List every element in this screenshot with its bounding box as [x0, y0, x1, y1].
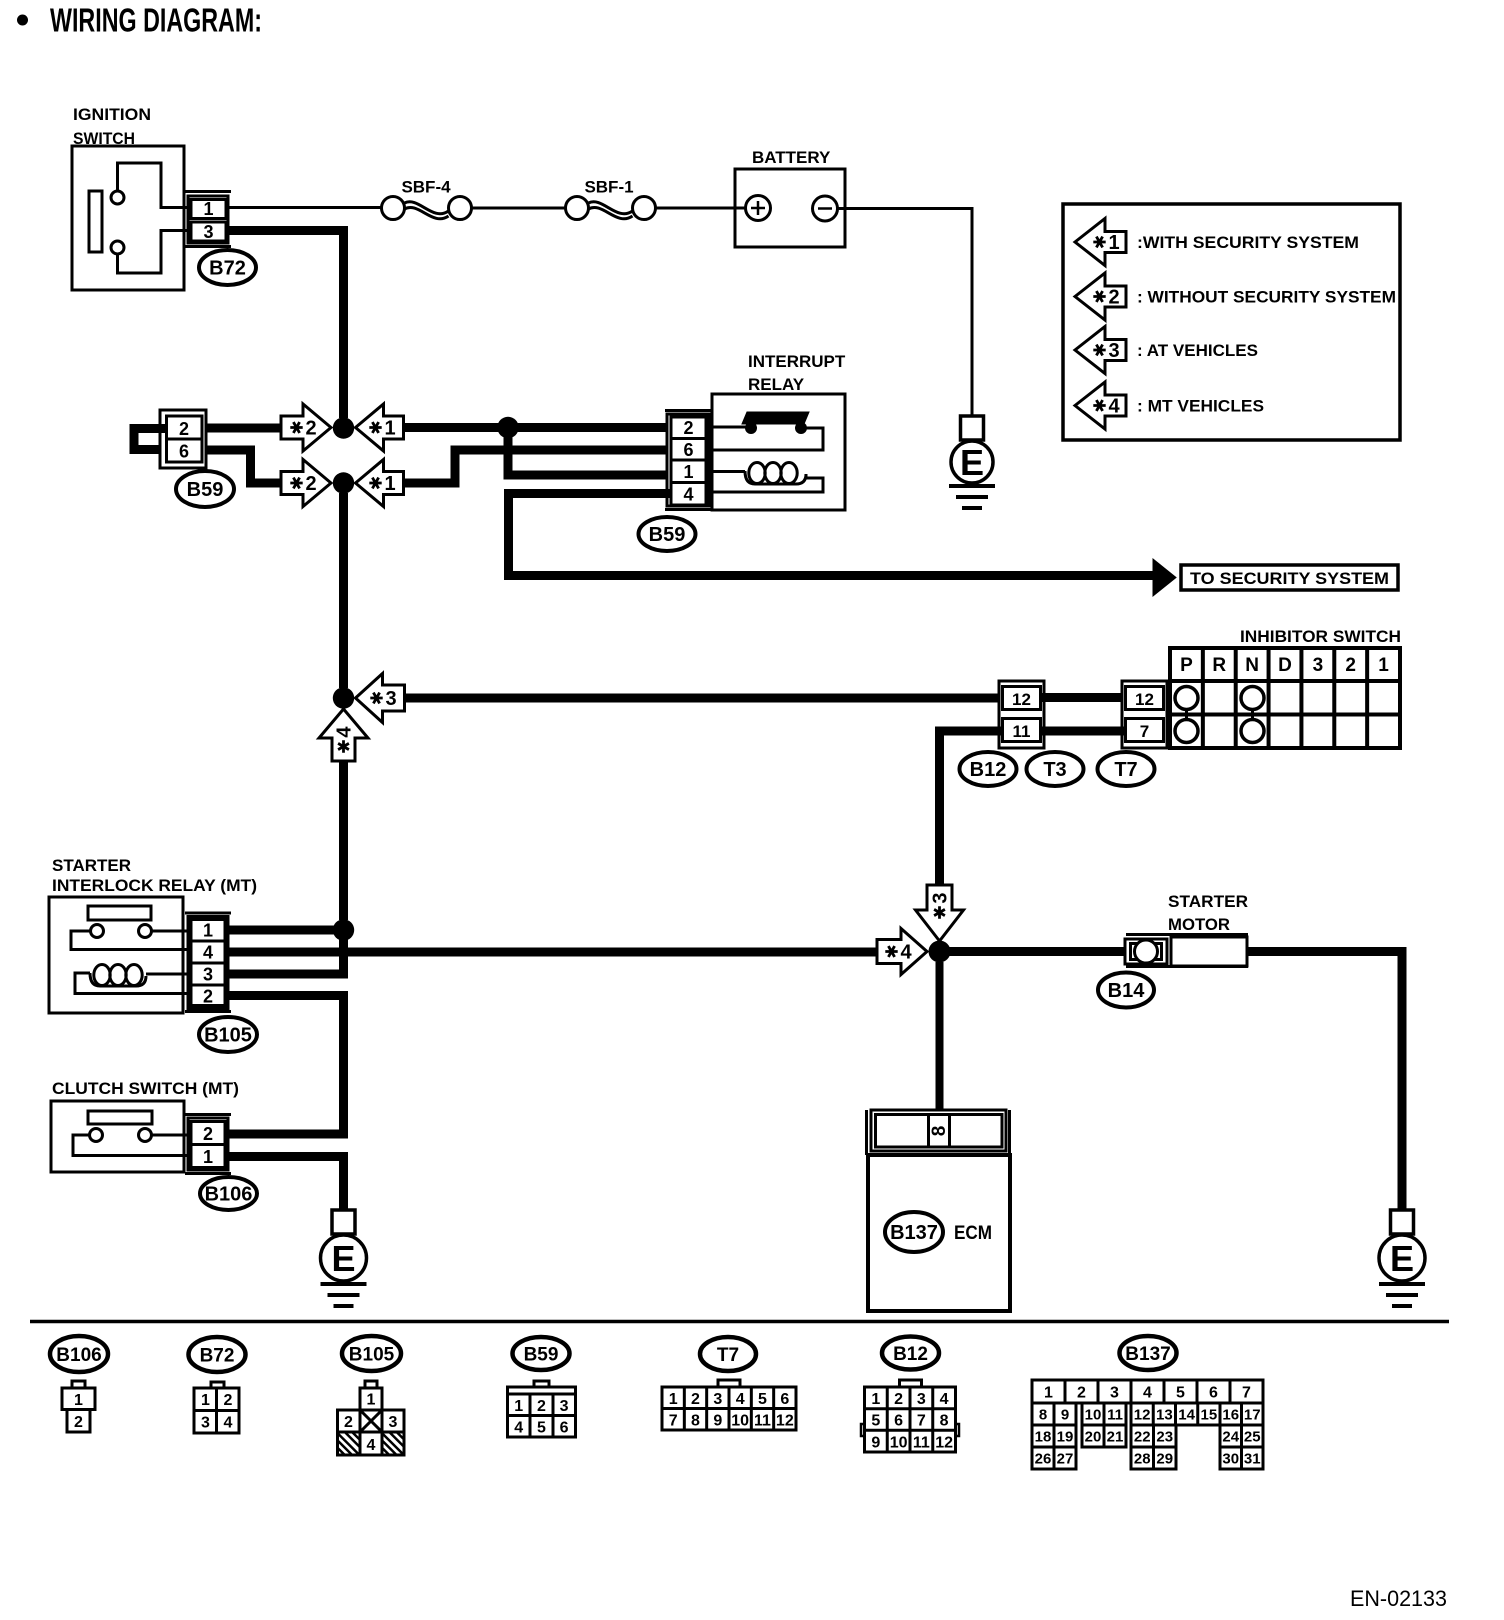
- wire arrow *1 row2 to interrupt relay pin 6: [403, 450, 670, 483]
- junction node A: [333, 417, 354, 438]
- chart connector T7 pins: [718, 1380, 740, 1387]
- svg-text:15: 15: [1201, 1407, 1218, 1424]
- connector B72 ellipse label: [199, 250, 256, 285]
- svg-text:3: 3: [917, 1391, 926, 1408]
- svg-text:T7: T7: [717, 1345, 739, 1366]
- clutch switch wire right contact to pin 2: [152, 1134, 189, 1137]
- wire starter motor to ground: [1247, 952, 1402, 1212]
- connector B12 pin 12: [1003, 687, 1041, 710]
- connector B59 left ellipse label: [176, 471, 234, 507]
- connector B59 left pin 2: [167, 416, 203, 439]
- svg-text:SBF-4: SBF-4: [401, 178, 451, 197]
- svg-text:26: 26: [1035, 1451, 1052, 1468]
- svg-text:4: 4: [900, 942, 912, 964]
- battery positive terminal: [746, 196, 771, 221]
- svg-text:: AT VEHICLES: : AT VEHICLES: [1137, 341, 1258, 360]
- svg-text:4: 4: [367, 1437, 376, 1454]
- connector B106 ellipse label: [200, 1177, 257, 1210]
- svg-text:B14: B14: [1108, 980, 1146, 1002]
- chart connector B137 row 1: [1032, 1380, 1263, 1403]
- svg-text:3: 3: [203, 965, 213, 985]
- wire arrow *1 to interrupt relay pin 2: [403, 423, 670, 432]
- svg-text:31: 31: [1244, 1451, 1261, 1468]
- arrow *3 at node C: [356, 674, 405, 723]
- svg-text:5: 5: [1176, 1385, 1185, 1402]
- svg-text:21: 21: [1107, 1429, 1124, 1446]
- ground E battery: [961, 416, 984, 440]
- svg-text:B59: B59: [649, 524, 686, 546]
- wire node F to ECM pin 8: [936, 962, 944, 1110]
- svg-text:B106: B106: [56, 1345, 101, 1366]
- svg-text:7: 7: [669, 1413, 678, 1430]
- starter interlock relay wire right contact to pin 1: [152, 930, 189, 933]
- svg-text:1: 1: [1108, 232, 1119, 254]
- svg-text:10: 10: [890, 1434, 908, 1451]
- wire below arrow *4 node C: [339, 760, 348, 920]
- svg-text:B12: B12: [893, 1344, 928, 1365]
- svg-text:B137: B137: [890, 1222, 938, 1244]
- svg-text:3: 3: [203, 222, 213, 242]
- svg-text:B72: B72: [209, 258, 246, 280]
- svg-text:4: 4: [203, 943, 213, 963]
- arrow *3 to node F: [916, 885, 964, 941]
- wire clutch pin 1 to ground: [227, 1157, 344, 1212]
- svg-text:24: 24: [1222, 1429, 1239, 1446]
- legend arrow *3: [1075, 327, 1126, 374]
- wire relay pin 1 to node E: [227, 926, 344, 935]
- svg-text:E: E: [960, 442, 984, 483]
- svg-text:T3: T3: [1043, 759, 1066, 781]
- connector B59 left pin 6: [167, 439, 203, 462]
- svg-text:9: 9: [871, 1434, 880, 1451]
- connector B106 pin 1: [191, 1145, 225, 1168]
- svg-text:8: 8: [691, 1413, 700, 1430]
- svg-text:RELAY: RELAY: [748, 375, 805, 394]
- svg-text:2: 2: [894, 1391, 903, 1408]
- starter interlock relay contact bar: [88, 906, 151, 920]
- svg-text:2: 2: [1108, 287, 1119, 309]
- ignition switch key bar: [89, 191, 102, 252]
- svg-text:27: 27: [1057, 1451, 1074, 1468]
- svg-text:STARTER: STARTER: [1168, 892, 1248, 911]
- ECM ellipse label B137: [885, 1212, 943, 1252]
- svg-text:3: 3: [201, 1415, 210, 1432]
- svg-text:D: D: [1278, 655, 1292, 676]
- connector B59 left shell: [160, 410, 206, 468]
- wire relay pin 2 down to clutch switch pin 2: [227, 996, 344, 1135]
- svg-text:3: 3: [1108, 340, 1119, 362]
- junction node E: [333, 919, 354, 940]
- svg-text:TO SECURITY SYSTEM: TO SECURITY SYSTEM: [1190, 569, 1389, 588]
- svg-text:11: 11: [1013, 722, 1031, 741]
- svg-text:2: 2: [537, 1398, 546, 1415]
- wire T7 pin 11-7 link: [1042, 727, 1124, 736]
- svg-text:3: 3: [713, 1391, 722, 1408]
- svg-text:2: 2: [683, 418, 693, 438]
- connector B14 ellipse label: [1098, 973, 1154, 1008]
- svg-text:B59: B59: [524, 1345, 559, 1366]
- wire B12 pin 12 to T7 pin 12: [1042, 693, 1124, 702]
- chart connector B72 ellipse: [189, 1337, 246, 1372]
- inhibitor switch P contacts: [1175, 687, 1198, 710]
- svg-text:P: P: [1180, 655, 1193, 676]
- starter interlock relay K2 box: [49, 897, 183, 1013]
- svg-text:4: 4: [334, 726, 356, 738]
- separator rule: [30, 1320, 1449, 1324]
- interrupt relay wire coil to pin 4: [709, 474, 823, 492]
- svg-text:IGNITION: IGNITION: [73, 105, 151, 124]
- clutch switch SW2 box: [51, 1101, 184, 1172]
- svg-text:10: 10: [731, 1413, 749, 1430]
- chart connector B12 ellipse: [882, 1337, 939, 1370]
- to security system box: [1181, 565, 1398, 590]
- svg-text:STARTER: STARTER: [52, 856, 131, 875]
- connector B105 pins 1 4 3 2: [191, 920, 225, 1006]
- chart connector B106 ellipse: [50, 1336, 108, 1372]
- svg-text:B72: B72: [200, 1346, 235, 1367]
- svg-text:3: 3: [1110, 1385, 1119, 1402]
- chart connector B137 row 4: [1032, 1447, 1076, 1469]
- starter interlock relay wire left contact to pin 4: [71, 931, 188, 950]
- wire node A to node B gap none; vertical below node B: [339, 493, 348, 688]
- svg-text:1: 1: [203, 921, 213, 941]
- svg-text:12: 12: [1135, 690, 1154, 709]
- svg-text:B105: B105: [349, 1345, 395, 1366]
- svg-text:4: 4: [1108, 396, 1120, 418]
- svg-text:INHIBITOR SWITCH: INHIBITOR SWITCH: [1240, 627, 1401, 646]
- svg-text:13: 13: [1156, 1407, 1173, 1424]
- arrow *1 row2: [356, 460, 404, 507]
- svg-text:9: 9: [713, 1413, 722, 1430]
- svg-text:CLUTCH SWITCH (MT): CLUTCH SWITCH (MT): [52, 1079, 239, 1098]
- arrow *1 row1: [356, 404, 404, 451]
- svg-text:3: 3: [930, 892, 952, 903]
- svg-text:6: 6: [179, 442, 189, 462]
- connector B105 shell: [185, 912, 231, 915]
- svg-text:SBF-1: SBF-1: [584, 178, 633, 197]
- chart connector B105 bottom row: [338, 1432, 405, 1455]
- ground E clutch: [332, 1210, 355, 1234]
- title bullet: [17, 15, 28, 26]
- wire node C to connector B12 pin 12: [404, 694, 1000, 703]
- connector B72 shell: [185, 190, 231, 193]
- svg-text:16: 16: [1222, 1407, 1239, 1424]
- svg-text:1: 1: [1378, 655, 1389, 676]
- connector T7 pin 12: [1126, 687, 1164, 710]
- ignition switch internal wire to pin 1: [118, 163, 189, 208]
- chart connector B59 ellipse: [513, 1337, 570, 1370]
- chart connector B105 hatched cells: [338, 1448, 345, 1455]
- svg-text:E: E: [1390, 1238, 1414, 1279]
- svg-text:2: 2: [179, 419, 189, 439]
- starter interlock relay contact circles: [91, 925, 104, 938]
- starter motor M1 body: [1171, 937, 1247, 966]
- svg-text:11: 11: [754, 1413, 771, 1430]
- arrow *4 at node C: [319, 709, 368, 761]
- svg-text:4: 4: [736, 1391, 745, 1408]
- svg-text:5: 5: [758, 1391, 767, 1408]
- inhibitor switch table: [1170, 648, 1400, 748]
- svg-text:5: 5: [537, 1420, 546, 1437]
- inhibitor switch N contacts: [1241, 687, 1264, 710]
- wire relay pin 4 to security system branch: [509, 494, 1154, 576]
- svg-text:22: 22: [1134, 1429, 1151, 1446]
- svg-text:30: 30: [1222, 1451, 1239, 1468]
- svg-text:2: 2: [203, 987, 213, 1007]
- ignition switch internal wire to pin 3: [118, 231, 189, 274]
- wire ignition pin 1 to fuse SBF-4: [228, 206, 382, 209]
- junction node D: [497, 417, 518, 438]
- ECM connector strip shell: [865, 1110, 868, 1155]
- svg-text:17: 17: [1244, 1407, 1261, 1424]
- arrow *2 row1: [281, 404, 331, 451]
- svg-text:1: 1: [367, 1392, 376, 1409]
- ellipse label B12: [960, 752, 1017, 786]
- svg-text:ECM: ECM: [954, 1223, 992, 1244]
- svg-text:25: 25: [1244, 1429, 1261, 1446]
- svg-text:1: 1: [683, 462, 693, 482]
- legend arrow *4: [1075, 382, 1126, 429]
- svg-text:R: R: [1212, 655, 1226, 676]
- svg-text:1: 1: [203, 199, 213, 219]
- svg-text:: WITHOUT SECURITY SYSTEM: : WITHOUT SECURITY SYSTEM: [1137, 288, 1396, 307]
- svg-text:INTERLOCK RELAY (MT): INTERLOCK RELAY (MT): [52, 876, 257, 895]
- svg-text:3: 3: [560, 1398, 569, 1415]
- junction node C: [333, 687, 354, 708]
- svg-text:INTERRUPT: INTERRUPT: [748, 352, 846, 371]
- svg-text:3: 3: [1313, 655, 1324, 676]
- connector T7 shell at inhibitor: [1122, 681, 1167, 748]
- ellipse label T3: [1027, 752, 1084, 786]
- interrupt relay pins 2 6 1 4: [671, 417, 706, 505]
- svg-text:2: 2: [344, 1414, 353, 1431]
- svg-text:10: 10: [1085, 1407, 1102, 1424]
- connector B106 shell: [185, 1113, 231, 1116]
- ground E starter motor: [1391, 1210, 1414, 1234]
- wire SBF-1 to battery: [656, 207, 736, 210]
- chart connector B106 pins: [72, 1381, 85, 1388]
- svg-text:E: E: [331, 1238, 355, 1279]
- svg-text::WITH SECURITY SYSTEM: :WITH SECURITY SYSTEM: [1137, 233, 1359, 252]
- interrupt relay connector shell B59: [665, 409, 711, 412]
- svg-text:2: 2: [691, 1391, 700, 1408]
- svg-text:B59: B59: [187, 479, 224, 501]
- chart connector B59 pins: [534, 1381, 549, 1387]
- wire B12 pin 11 down to *3 arrow: [940, 731, 1003, 886]
- connector B105 ellipse label: [199, 1017, 257, 1052]
- svg-text:7: 7: [917, 1413, 926, 1430]
- starter interlock relay coil lead to pin 3: [146, 973, 188, 976]
- svg-text:14: 14: [1178, 1407, 1195, 1424]
- battery internal leads: [735, 207, 746, 210]
- svg-text:4: 4: [224, 1415, 233, 1432]
- svg-text:12: 12: [935, 1434, 953, 1451]
- interrupt relay switch contact bar: [742, 412, 809, 424]
- connector T7 pin 7: [1126, 719, 1164, 742]
- wire node D to interrupt relay pin 1: [508, 432, 670, 475]
- svg-text:8: 8: [929, 1126, 950, 1137]
- wire node E down to relay pin 3: [227, 930, 344, 974]
- svg-text:1: 1: [514, 1398, 523, 1415]
- interrupt relay K1 box: [712, 394, 845, 510]
- svg-text:1: 1: [1044, 1385, 1053, 1402]
- svg-text:11: 11: [913, 1434, 930, 1451]
- svg-text:12: 12: [776, 1413, 794, 1430]
- arrow *4 to node F: [877, 929, 927, 975]
- svg-text:2: 2: [1345, 655, 1356, 676]
- svg-text:BATTERY: BATTERY: [752, 148, 831, 167]
- svg-text:1: 1: [384, 473, 395, 495]
- chart connector B137 row 3: [1032, 1425, 1076, 1447]
- ellipse label T7: [1098, 752, 1155, 786]
- battery BAT box: [735, 169, 845, 247]
- svg-text:18: 18: [1035, 1429, 1052, 1446]
- svg-text:6: 6: [780, 1391, 789, 1408]
- svg-text:1: 1: [74, 1392, 83, 1409]
- clutch switch contact circles: [90, 1129, 103, 1142]
- chart connector B137 row 2: [1032, 1403, 1076, 1425]
- svg-text:1: 1: [201, 1392, 210, 1409]
- svg-text:7: 7: [1140, 722, 1149, 741]
- starter motor connector B14 shell: [1126, 933, 1248, 936]
- svg-text:2: 2: [305, 473, 316, 495]
- to security system arrowhead: [1153, 559, 1176, 596]
- clutch switch wire left contact to pin 1: [73, 1135, 188, 1156]
- svg-text:20: 20: [1085, 1429, 1102, 1446]
- svg-text:12: 12: [1134, 1407, 1151, 1424]
- svg-text:1: 1: [203, 1147, 213, 1167]
- chart connector B105 pins: [365, 1381, 377, 1388]
- wire SBF-4 to SBF-1: [472, 207, 566, 210]
- svg-text:8: 8: [940, 1413, 949, 1430]
- svg-text:T7: T7: [1114, 759, 1137, 781]
- ignition switch contact top: [111, 191, 124, 204]
- ECM U1 body: [868, 1155, 1010, 1311]
- chart connector B105 crossed cell: [360, 1410, 382, 1432]
- svg-text:9: 9: [1061, 1407, 1069, 1424]
- svg-text:N: N: [1245, 655, 1259, 676]
- svg-text:3: 3: [389, 1414, 398, 1431]
- svg-text:6: 6: [683, 440, 693, 460]
- svg-text:2: 2: [305, 418, 316, 440]
- ECM connector pins with pin 8: [876, 1115, 1003, 1148]
- svg-text:2: 2: [224, 1392, 233, 1409]
- arrow *2 row2: [281, 460, 331, 507]
- svg-text:B105: B105: [204, 1025, 252, 1047]
- svg-text:12: 12: [1012, 690, 1031, 709]
- connector B72 pin 3: [191, 222, 226, 241]
- svg-text:4: 4: [683, 485, 693, 505]
- wire B59 pin 2 to arrow *2: [205, 424, 282, 433]
- ignition switch contact bottom: [111, 241, 124, 254]
- svg-text:2: 2: [203, 1124, 213, 1144]
- svg-text:5: 5: [871, 1413, 880, 1430]
- connector B72 pin 1: [191, 200, 226, 219]
- svg-text:11: 11: [1107, 1407, 1123, 1424]
- connector B12 shell at inhibitor: [999, 681, 1044, 748]
- svg-text:B137: B137: [1125, 1344, 1170, 1365]
- svg-text:2: 2: [1077, 1385, 1086, 1402]
- svg-text:6: 6: [894, 1413, 903, 1430]
- svg-text:19: 19: [1057, 1429, 1074, 1446]
- svg-text:6: 6: [560, 1420, 569, 1437]
- svg-text:23: 23: [1156, 1429, 1173, 1446]
- svg-text:4: 4: [1143, 1385, 1152, 1402]
- svg-text:B12: B12: [970, 759, 1007, 781]
- starter interlock relay coil lead to pin 2: [75, 973, 188, 994]
- wire loop pin2 to pin6 left side: [134, 429, 167, 450]
- interrupt relay wire pin2 to contact: [709, 426, 747, 429]
- interrupt relay contact dots: [745, 422, 757, 434]
- junction node B: [333, 472, 354, 493]
- ignition switch SW1 box: [72, 146, 184, 290]
- wire node F to starter motor: [949, 947, 1126, 956]
- svg-text:28: 28: [1134, 1451, 1151, 1468]
- svg-text:MOTOR: MOTOR: [1168, 915, 1230, 934]
- svg-text:: MT VEHICLES: : MT VEHICLES: [1137, 397, 1264, 416]
- svg-text:7: 7: [1242, 1385, 1251, 1402]
- svg-text:1: 1: [384, 418, 395, 440]
- svg-text:1: 1: [669, 1391, 678, 1408]
- chart connector T7 ellipse: [700, 1337, 756, 1371]
- starter interlock relay coil: [90, 973, 146, 986]
- svg-text:2: 2: [74, 1414, 83, 1431]
- svg-text:1: 1: [871, 1391, 880, 1408]
- interrupt relay wire contact to pin 6: [709, 428, 823, 450]
- svg-text:6: 6: [1209, 1385, 1218, 1402]
- legend box: [1063, 204, 1400, 440]
- wire relay pin 4 to arrow *4 long run: [227, 948, 877, 957]
- svg-text:B106: B106: [205, 1184, 253, 1206]
- svg-text:3: 3: [385, 688, 396, 710]
- legend arrow *2: [1075, 273, 1126, 320]
- svg-text:8: 8: [1039, 1407, 1047, 1424]
- wire B59 pin 6 to arrow *2 row2: [205, 450, 282, 483]
- svg-text:4: 4: [514, 1420, 523, 1437]
- legend arrow *1: [1075, 219, 1126, 266]
- starter motor connector B14 box: [1125, 939, 1167, 964]
- chart connector B105 ellipse: [342, 1336, 401, 1371]
- connector B106 pin 2: [191, 1122, 225, 1145]
- svg-text:4: 4: [940, 1391, 949, 1408]
- interrupt relay ellipse label B59: [639, 517, 696, 551]
- chart connector B137 ellipse: [1120, 1336, 1177, 1370]
- svg-text:29: 29: [1156, 1451, 1173, 1468]
- clutch switch contact bar: [88, 1111, 152, 1124]
- battery negative terminal: [813, 196, 838, 221]
- connector B12 pin 11: [1003, 719, 1041, 742]
- wire ignition pin 3 down main feed: [228, 231, 344, 419]
- junction node F: [929, 941, 951, 963]
- chart connector B12 pins: [900, 1380, 922, 1387]
- svg-text:EN-02133: EN-02133: [1350, 1586, 1447, 1611]
- interrupt relay coil: [709, 470, 745, 473]
- chart connector B72 pins: [211, 1382, 224, 1388]
- svg-text:WIRING DIAGRAM:: WIRING DIAGRAM:: [50, 2, 262, 39]
- wire battery negative to ground: [845, 209, 972, 417]
